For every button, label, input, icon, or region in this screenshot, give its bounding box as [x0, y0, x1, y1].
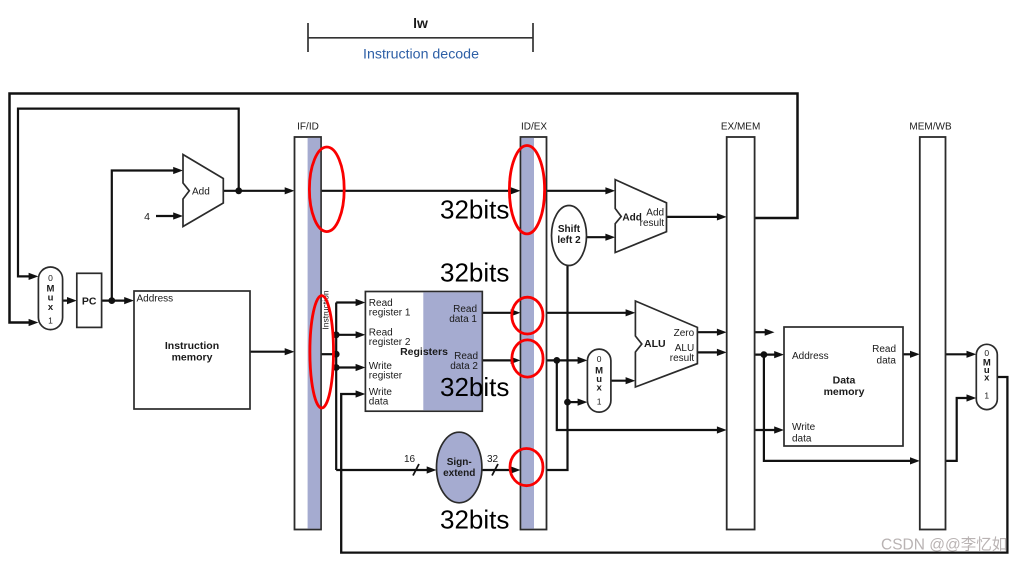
sign extend unit: [437, 432, 482, 503]
wire constant 4 to Add: [156, 215, 175, 217]
svg-text:data: data: [369, 397, 389, 408]
svg-text:Address: Address: [137, 293, 174, 304]
wire sign extend to ID/EX: [482, 469, 513, 471]
wire immediate to ALU mux input 1: [568, 401, 580, 403]
svg-text:result: result: [670, 353, 695, 364]
wire Add to IF/ID: [223, 190, 286, 192]
svg-text:register: register: [369, 370, 403, 381]
wire write-back to write data: [341, 377, 1007, 553]
highlight ellipse ID/EX PC+4 field: [509, 146, 544, 234]
wire MEM/WB ALU result to mux: [946, 398, 969, 461]
shift left 2 unit: [552, 206, 587, 266]
wire EX/MEM to data memory write data: [755, 429, 777, 431]
svg-text:result: result: [640, 218, 665, 229]
junction ALU result branch: [761, 351, 768, 358]
svg-text:data: data: [877, 356, 897, 367]
mux write-back: [976, 344, 997, 409]
svg-text:Registers: Registers: [400, 346, 448, 358]
junction PC output: [108, 297, 115, 304]
junction instruction bus entry: [333, 351, 340, 358]
svg-text:1: 1: [48, 316, 53, 326]
svg-text:Add: Add: [192, 187, 210, 198]
svg-text:Sign-: Sign-: [447, 457, 472, 468]
wire ID/EX read data 1 to ALU: [547, 312, 628, 314]
wire read data 2 to EX/MEM write data: [557, 360, 719, 430]
wire instruction bus vertical: [335, 303, 337, 471]
svg-text:data: data: [792, 433, 812, 444]
svg-text:data 1: data 1: [449, 314, 477, 325]
svg-text:ALU: ALU: [644, 338, 666, 350]
wire EX/MEM ALU result to data memory address: [755, 354, 777, 356]
wire ID/EX PC+4 to Add2: [547, 190, 608, 192]
svg-text:32bits: 32bits: [440, 505, 509, 535]
svg-text:x: x: [596, 383, 602, 394]
svg-text:0: 0: [984, 348, 989, 358]
svg-text:extend: extend: [443, 468, 475, 479]
svg-text:Shift: Shift: [558, 224, 581, 235]
register PC: [77, 273, 102, 327]
svg-text:x: x: [984, 373, 990, 384]
wire ALU result to EX/MEM: [697, 351, 719, 353]
highlight ellipse ID/EX read data 2 field: [512, 340, 543, 377]
junction read data 2 branch: [553, 357, 560, 364]
svg-text:32bits: 32bits: [440, 195, 509, 225]
svg-text:4: 4: [144, 211, 150, 223]
wire ALU zero to EX/MEM: [697, 331, 719, 333]
wire PC to instruction memory: [102, 300, 127, 302]
wire zero stub after EX/MEM: [755, 331, 767, 333]
junction instruction bus write register: [333, 364, 340, 371]
junction PC+4 at Add output: [235, 187, 242, 194]
wire ALU result bypass to MEM/WB: [764, 355, 912, 461]
registers file: [365, 292, 482, 412]
mux ALU operand: [587, 349, 611, 412]
ALU: [635, 301, 697, 387]
highlight ellipse IF/ID PC+4 field: [309, 147, 344, 232]
svg-text:32: 32: [487, 454, 499, 465]
svg-text:Add: Add: [646, 208, 664, 219]
svg-text:x: x: [48, 302, 54, 313]
wire MEM/WB read data to mux: [946, 353, 969, 355]
svg-text:left 2: left 2: [557, 235, 581, 246]
wire PC to Add: [112, 171, 175, 301]
wire shift left 2 to Add2: [587, 236, 608, 238]
pipeline register MEM/WB: [920, 137, 946, 530]
svg-text:memory: memory: [824, 386, 865, 398]
svg-text:0: 0: [48, 273, 53, 283]
svg-text:1: 1: [597, 397, 602, 407]
wire bus to read register 1: [336, 301, 357, 303]
svg-text:1: 1: [984, 391, 989, 401]
svg-text:data 2: data 2: [450, 361, 478, 372]
data memory: [784, 327, 903, 446]
svg-text:Write: Write: [792, 422, 816, 433]
svg-text:0: 0: [597, 354, 602, 364]
svg-text:Zero: Zero: [674, 328, 695, 339]
wire bus to read register 2: [336, 334, 357, 336]
wire ID/EX immediate to shift left 2: [547, 266, 568, 470]
wire IF/ID instruction to bus: [321, 353, 336, 355]
wire mux to PC: [63, 300, 69, 302]
wire data memory read data to MEM/WB: [903, 353, 912, 355]
wire bus to write register: [336, 366, 357, 368]
wire instruction memory to IF/ID: [250, 351, 287, 353]
highlight ellipse IF/ID instruction field: [310, 296, 334, 408]
adder Add PC+4: [183, 155, 223, 227]
svg-text:Address: Address: [792, 351, 829, 362]
highlight ellipse ID/EX read data 1 field: [512, 297, 543, 334]
svg-text:16: 16: [404, 454, 416, 465]
svg-text:ID/EX: ID/EX: [521, 122, 547, 133]
adder Add branch target: [615, 180, 666, 253]
pipeline register IF/ID: [295, 137, 322, 530]
svg-text:IF/ID: IF/ID: [297, 122, 319, 133]
wire PC+4 feedback to PC mux: [18, 109, 239, 277]
wire ALU mux to ALU: [611, 380, 628, 382]
wire IF/ID PC+4 to ID/EX: [321, 190, 513, 192]
svg-text:Read: Read: [872, 344, 896, 355]
svg-text:Instruction: Instruction: [165, 340, 219, 352]
svg-text:EX/MEM: EX/MEM: [721, 122, 760, 133]
wire bus to sign extend: [336, 469, 429, 471]
svg-text:register 1: register 1: [369, 308, 411, 319]
svg-text:Data: Data: [833, 375, 856, 387]
svg-text:PC: PC: [82, 296, 97, 308]
junction instruction bus read register 2: [333, 331, 340, 338]
svg-text:lw: lw: [413, 15, 428, 31]
stage bracket span: [308, 23, 533, 52]
mux PC source: [38, 267, 62, 330]
svg-text:Instruction decode: Instruction decode: [363, 47, 479, 63]
svg-text:MEM/WB: MEM/WB: [909, 122, 952, 133]
pipeline register EX/MEM: [727, 137, 755, 530]
wire read data 1 to ID/EX: [482, 312, 512, 314]
wire ID/EX read data 2 to ALU mux: [547, 359, 580, 361]
wire Add2 result to EX/MEM: [667, 216, 719, 218]
junction immediate branch to ALU mux: [564, 399, 571, 406]
svg-text:32bits: 32bits: [440, 258, 509, 288]
bit-width slash 16: [413, 464, 419, 476]
instruction memory: [134, 291, 250, 409]
svg-text:32bits: 32bits: [440, 372, 509, 402]
svg-text:memory: memory: [172, 352, 213, 364]
highlight ellipse ID/EX immediate field: [510, 449, 543, 486]
pipeline register ID/EX: [521, 137, 547, 530]
wire branch target feedback EX/MEM to PC mux: [10, 94, 798, 323]
svg-text:CSDN @@李忆如: CSDN @@李忆如: [881, 536, 1007, 554]
bit-width slash 32: [492, 464, 498, 476]
wire read data 2 to ID/EX: [482, 359, 512, 361]
